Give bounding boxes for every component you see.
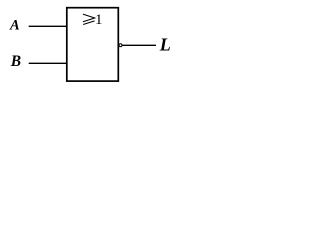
wire output (bubble to label L) [122, 44, 156, 46]
svg-text:1: 1 [95, 12, 103, 28]
svg-text:L: L [159, 35, 171, 55]
inversion bubble on output [119, 44, 122, 47]
wire B (input B to gate) [29, 62, 67, 64]
wire A (input A to gate) [29, 25, 67, 27]
OR gate U1 body (IEC rectangle) [67, 8, 119, 81]
svg-text:A: A [9, 18, 20, 34]
svg-text:B: B [10, 53, 21, 70]
gate function label &#8805;1 [83, 14, 95, 24]
